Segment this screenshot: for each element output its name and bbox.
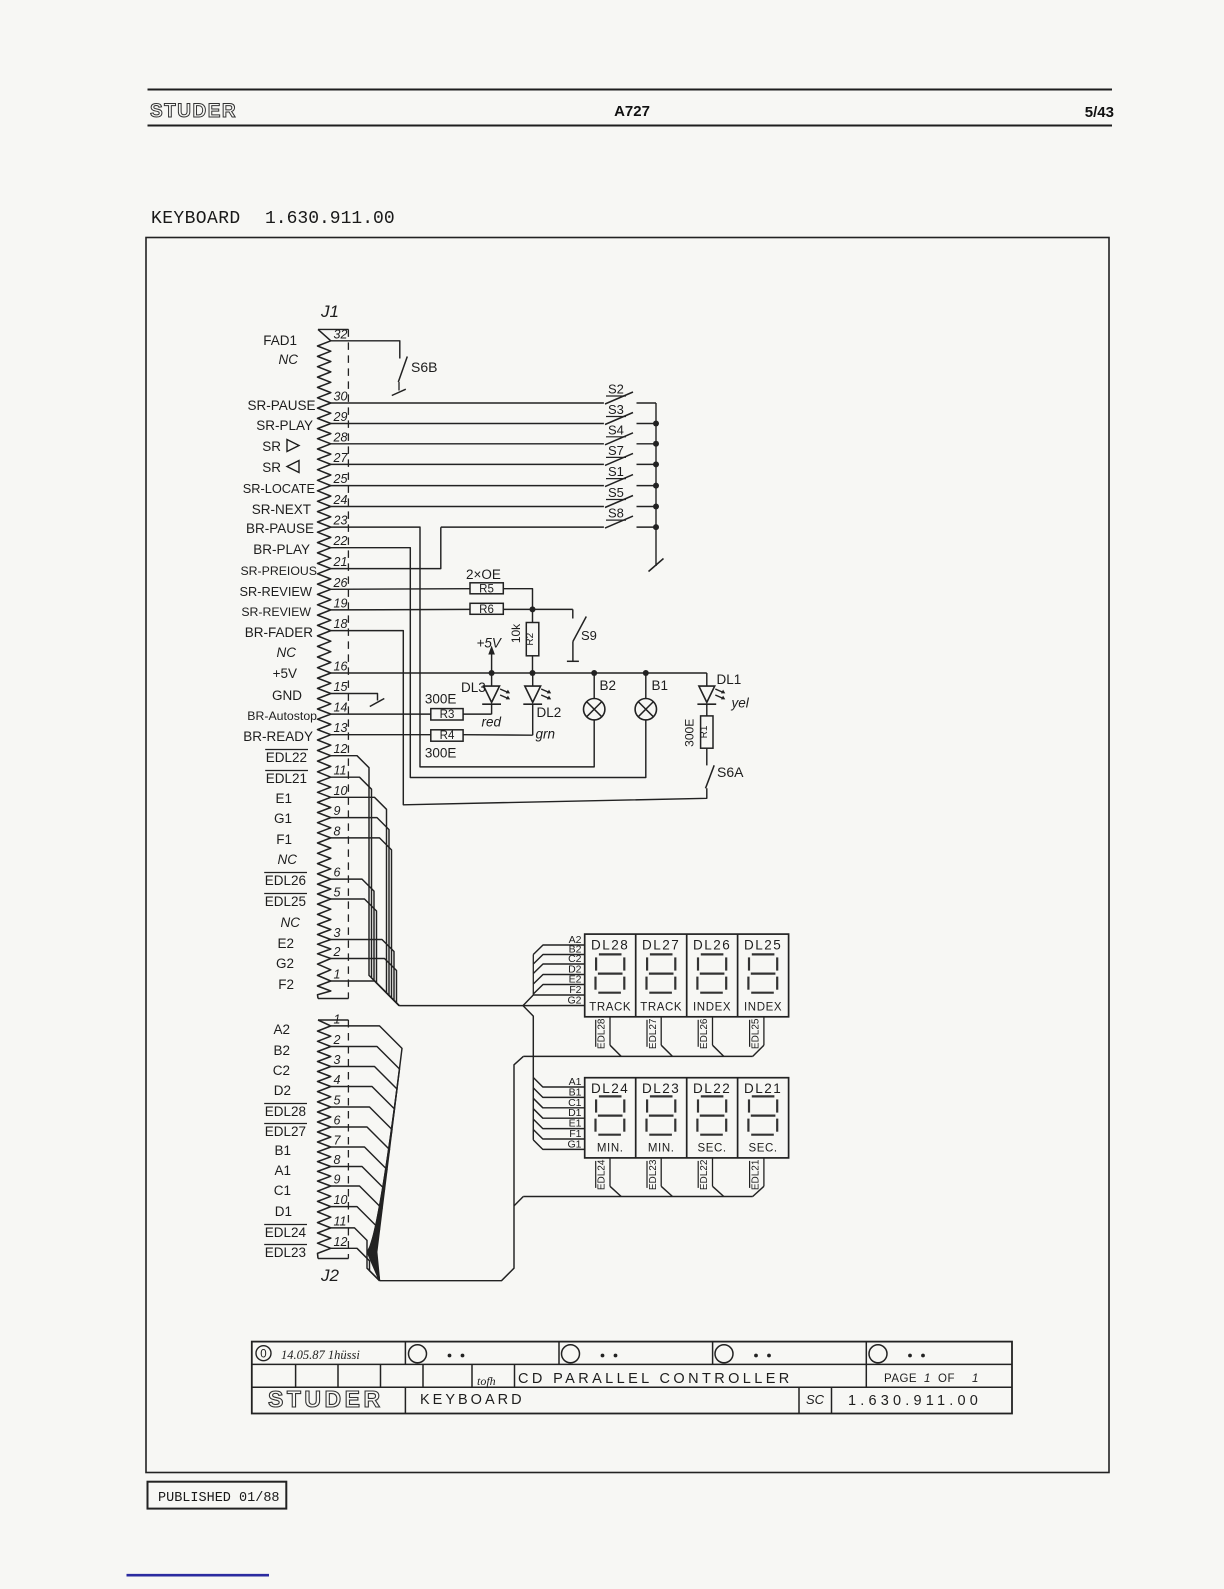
svg-text:DL25: DL25 <box>744 937 782 952</box>
svg-text:A2: A2 <box>273 1022 290 1037</box>
svg-text:R3: R3 <box>440 709 455 721</box>
svg-text:27: 27 <box>333 451 349 465</box>
svg-text:SR-PLAY: SR-PLAY <box>256 418 313 433</box>
svg-text:DL3: DL3 <box>461 680 486 695</box>
svg-text:6: 6 <box>334 1114 341 1128</box>
svg-text:2: 2 <box>333 1033 341 1047</box>
svg-text:DL22: DL22 <box>693 1081 731 1096</box>
svg-text:S7: S7 <box>608 443 624 458</box>
svg-text:1: 1 <box>334 968 341 982</box>
svg-text:2: 2 <box>333 945 341 959</box>
svg-text:1.630.911.00: 1.630.911.00 <box>265 209 395 229</box>
svg-text:EDL25: EDL25 <box>265 894 306 909</box>
svg-text:300E: 300E <box>425 692 457 707</box>
svg-text:14: 14 <box>334 701 348 715</box>
svg-text:SEC.: SEC. <box>748 1142 777 1154</box>
svg-text:R6: R6 <box>479 604 494 616</box>
svg-text:EDL21: EDL21 <box>266 771 307 786</box>
svg-text:14.05.87 1hüssi: 14.05.87 1hüssi <box>281 1348 360 1362</box>
svg-text:STUDER: STUDER <box>150 101 237 122</box>
svg-text:SR-LOCATE: SR-LOCATE <box>243 481 315 496</box>
svg-text:R4: R4 <box>440 730 455 742</box>
svg-text:9: 9 <box>334 804 341 818</box>
svg-text:EDL23: EDL23 <box>265 1245 306 1260</box>
svg-text:EDL22: EDL22 <box>266 750 307 765</box>
svg-text:MIN.: MIN. <box>648 1142 675 1154</box>
svg-text:DL24: DL24 <box>591 1081 629 1096</box>
svg-text:EDL24: EDL24 <box>265 1225 307 1240</box>
svg-text:S4: S4 <box>608 422 624 437</box>
svg-text:DL26: DL26 <box>693 937 731 952</box>
svg-text:B1: B1 <box>652 678 669 693</box>
svg-text:15: 15 <box>334 680 348 694</box>
svg-text:DL2: DL2 <box>537 705 562 720</box>
svg-text:B2: B2 <box>600 678 617 693</box>
svg-text:10: 10 <box>334 1193 348 1207</box>
svg-text:MIN.: MIN. <box>597 1142 624 1154</box>
svg-text:OF: OF <box>938 1373 955 1385</box>
svg-text:0: 0 <box>260 1349 266 1361</box>
svg-text:28: 28 <box>333 430 348 444</box>
svg-text:S9: S9 <box>581 628 597 643</box>
svg-text:32: 32 <box>334 327 348 341</box>
svg-text:KEYBOARD: KEYBOARD <box>420 1392 525 1408</box>
svg-text:B2: B2 <box>273 1043 290 1058</box>
svg-text:18: 18 <box>334 617 348 631</box>
svg-text:2×OE: 2×OE <box>466 567 501 582</box>
svg-text:NC: NC <box>279 352 299 367</box>
svg-text:KEYBOARD: KEYBOARD <box>151 209 241 229</box>
svg-text:11: 11 <box>334 1214 347 1228</box>
svg-text:S5: S5 <box>608 485 624 500</box>
svg-text:S6A: S6A <box>717 764 744 780</box>
svg-text:9: 9 <box>334 1173 341 1187</box>
svg-text:FAD1: FAD1 <box>263 333 297 348</box>
svg-text:1: 1 <box>924 1373 930 1385</box>
svg-text:NC: NC <box>278 852 298 867</box>
svg-text:13: 13 <box>334 721 348 735</box>
svg-text:7: 7 <box>334 1134 342 1148</box>
svg-text:16: 16 <box>334 660 348 674</box>
svg-text:G2: G2 <box>276 956 294 971</box>
svg-text:12: 12 <box>334 742 348 756</box>
svg-text:SR-REVIEW: SR-REVIEW <box>239 584 312 599</box>
svg-text:DL27: DL27 <box>642 937 680 952</box>
svg-text:5: 5 <box>334 886 341 900</box>
svg-text:B1: B1 <box>274 1143 291 1158</box>
svg-text:C2: C2 <box>273 1063 290 1078</box>
svg-text:EDL23: EDL23 <box>648 1159 659 1190</box>
svg-text:S1: S1 <box>608 464 624 479</box>
svg-text:19: 19 <box>334 596 348 610</box>
svg-text:SR-PREIOUS: SR-PREIOUS <box>240 564 317 578</box>
svg-text:A727: A727 <box>614 103 650 120</box>
svg-text:E1: E1 <box>275 791 292 806</box>
svg-text:EDL26: EDL26 <box>265 873 306 888</box>
svg-text:6: 6 <box>334 866 341 880</box>
svg-text:SR: SR <box>262 460 281 475</box>
svg-text:NC: NC <box>277 645 297 660</box>
svg-text:1: 1 <box>334 1012 341 1026</box>
svg-text:8: 8 <box>334 1153 341 1167</box>
svg-text:A1: A1 <box>274 1163 291 1178</box>
svg-text:S2: S2 <box>608 382 624 397</box>
svg-text:+5V: +5V <box>273 666 297 681</box>
svg-text:SR-NEXT: SR-NEXT <box>252 502 311 517</box>
svg-text:DL28: DL28 <box>591 937 629 952</box>
svg-text:BR-FADER: BR-FADER <box>245 625 314 640</box>
svg-text:BR-READY: BR-READY <box>243 729 313 744</box>
svg-text:G1: G1 <box>567 1138 581 1150</box>
svg-text:+5V: +5V <box>477 636 503 651</box>
svg-text:EDL27: EDL27 <box>648 1018 659 1049</box>
svg-text:PUBLISHED 01/88: PUBLISHED 01/88 <box>158 1491 280 1506</box>
svg-text:grn: grn <box>536 727 556 742</box>
svg-text:EDL22: EDL22 <box>699 1159 710 1190</box>
svg-text:EDL21: EDL21 <box>750 1159 761 1190</box>
svg-text:D2: D2 <box>274 1083 291 1098</box>
svg-text:S8: S8 <box>608 506 624 521</box>
svg-text:S3: S3 <box>608 402 624 417</box>
svg-text:EDL25: EDL25 <box>750 1018 761 1049</box>
svg-text:300E: 300E <box>683 719 697 747</box>
svg-text:SR-PAUSE: SR-PAUSE <box>247 398 315 413</box>
svg-text:25: 25 <box>333 472 348 486</box>
svg-text:EDL28: EDL28 <box>265 1104 306 1119</box>
svg-text:29: 29 <box>333 410 348 424</box>
svg-text:INDEX: INDEX <box>693 1001 731 1013</box>
svg-text:SC: SC <box>806 1392 825 1407</box>
svg-text:1.630.911.00: 1.630.911.00 <box>848 1393 982 1409</box>
svg-text:8: 8 <box>334 824 341 838</box>
svg-text:NC: NC <box>281 915 301 930</box>
svg-text:SR: SR <box>262 439 281 454</box>
svg-text:DL21: DL21 <box>744 1081 782 1096</box>
svg-text:tofh: tofh <box>477 1374 496 1388</box>
svg-text:24: 24 <box>333 493 348 507</box>
svg-text:G1: G1 <box>274 811 292 826</box>
svg-text:DL23: DL23 <box>642 1081 680 1096</box>
svg-text:1: 1 <box>972 1373 978 1385</box>
svg-text:F2: F2 <box>278 977 294 992</box>
svg-text:12: 12 <box>334 1235 348 1249</box>
svg-text:EDL24: EDL24 <box>597 1159 608 1190</box>
svg-text:SR-REVIEW: SR-REVIEW <box>241 605 311 619</box>
svg-text:BR-Autostop: BR-Autostop <box>247 709 317 723</box>
svg-text:10: 10 <box>334 784 348 798</box>
svg-text:INDEX: INDEX <box>744 1001 782 1013</box>
svg-text:30: 30 <box>334 390 348 404</box>
svg-text:DL1: DL1 <box>717 672 742 687</box>
svg-text:11: 11 <box>334 764 347 778</box>
svg-text:F1: F1 <box>276 832 292 847</box>
svg-text:EDL28: EDL28 <box>597 1018 608 1049</box>
svg-text:BR-PAUSE: BR-PAUSE <box>246 521 314 536</box>
svg-text:SEC.: SEC. <box>697 1142 726 1154</box>
svg-text:R5: R5 <box>479 583 494 595</box>
svg-text:4: 4 <box>334 1073 341 1087</box>
svg-text:3: 3 <box>334 926 341 940</box>
svg-text:G2: G2 <box>567 995 581 1007</box>
svg-text:red: red <box>482 715 502 730</box>
svg-text:BR-PLAY: BR-PLAY <box>253 542 310 557</box>
svg-text:21: 21 <box>333 555 348 569</box>
svg-text:26: 26 <box>333 576 348 590</box>
svg-text:23: 23 <box>333 514 348 528</box>
svg-text:yel: yel <box>731 696 750 711</box>
svg-text:CD PARALLEL CONTROLLER: CD PARALLEL CONTROLLER <box>518 1371 793 1387</box>
svg-text:EDL27: EDL27 <box>265 1124 306 1139</box>
svg-text:3: 3 <box>334 1053 341 1067</box>
svg-text:10k: 10k <box>509 623 523 643</box>
svg-text:R1: R1 <box>699 725 710 738</box>
svg-text:S6B: S6B <box>411 359 437 375</box>
svg-text:5: 5 <box>334 1094 341 1108</box>
svg-text:EDL26: EDL26 <box>699 1018 710 1049</box>
svg-text:J2: J2 <box>320 1266 340 1285</box>
svg-text:D1: D1 <box>275 1204 292 1219</box>
svg-text:5/43: 5/43 <box>1085 104 1114 121</box>
svg-text:C1: C1 <box>274 1183 291 1198</box>
svg-text:R2: R2 <box>525 632 536 645</box>
svg-text:TRACK: TRACK <box>640 1001 682 1013</box>
svg-text:STUDER: STUDER <box>268 1386 384 1412</box>
svg-text:22: 22 <box>333 534 348 548</box>
svg-text:E2: E2 <box>277 936 294 951</box>
svg-text:TRACK: TRACK <box>589 1001 631 1013</box>
svg-text:J1: J1 <box>320 302 339 321</box>
svg-text:GND: GND <box>272 688 302 703</box>
svg-text:PAGE: PAGE <box>884 1373 917 1385</box>
svg-text:300E: 300E <box>425 746 457 761</box>
